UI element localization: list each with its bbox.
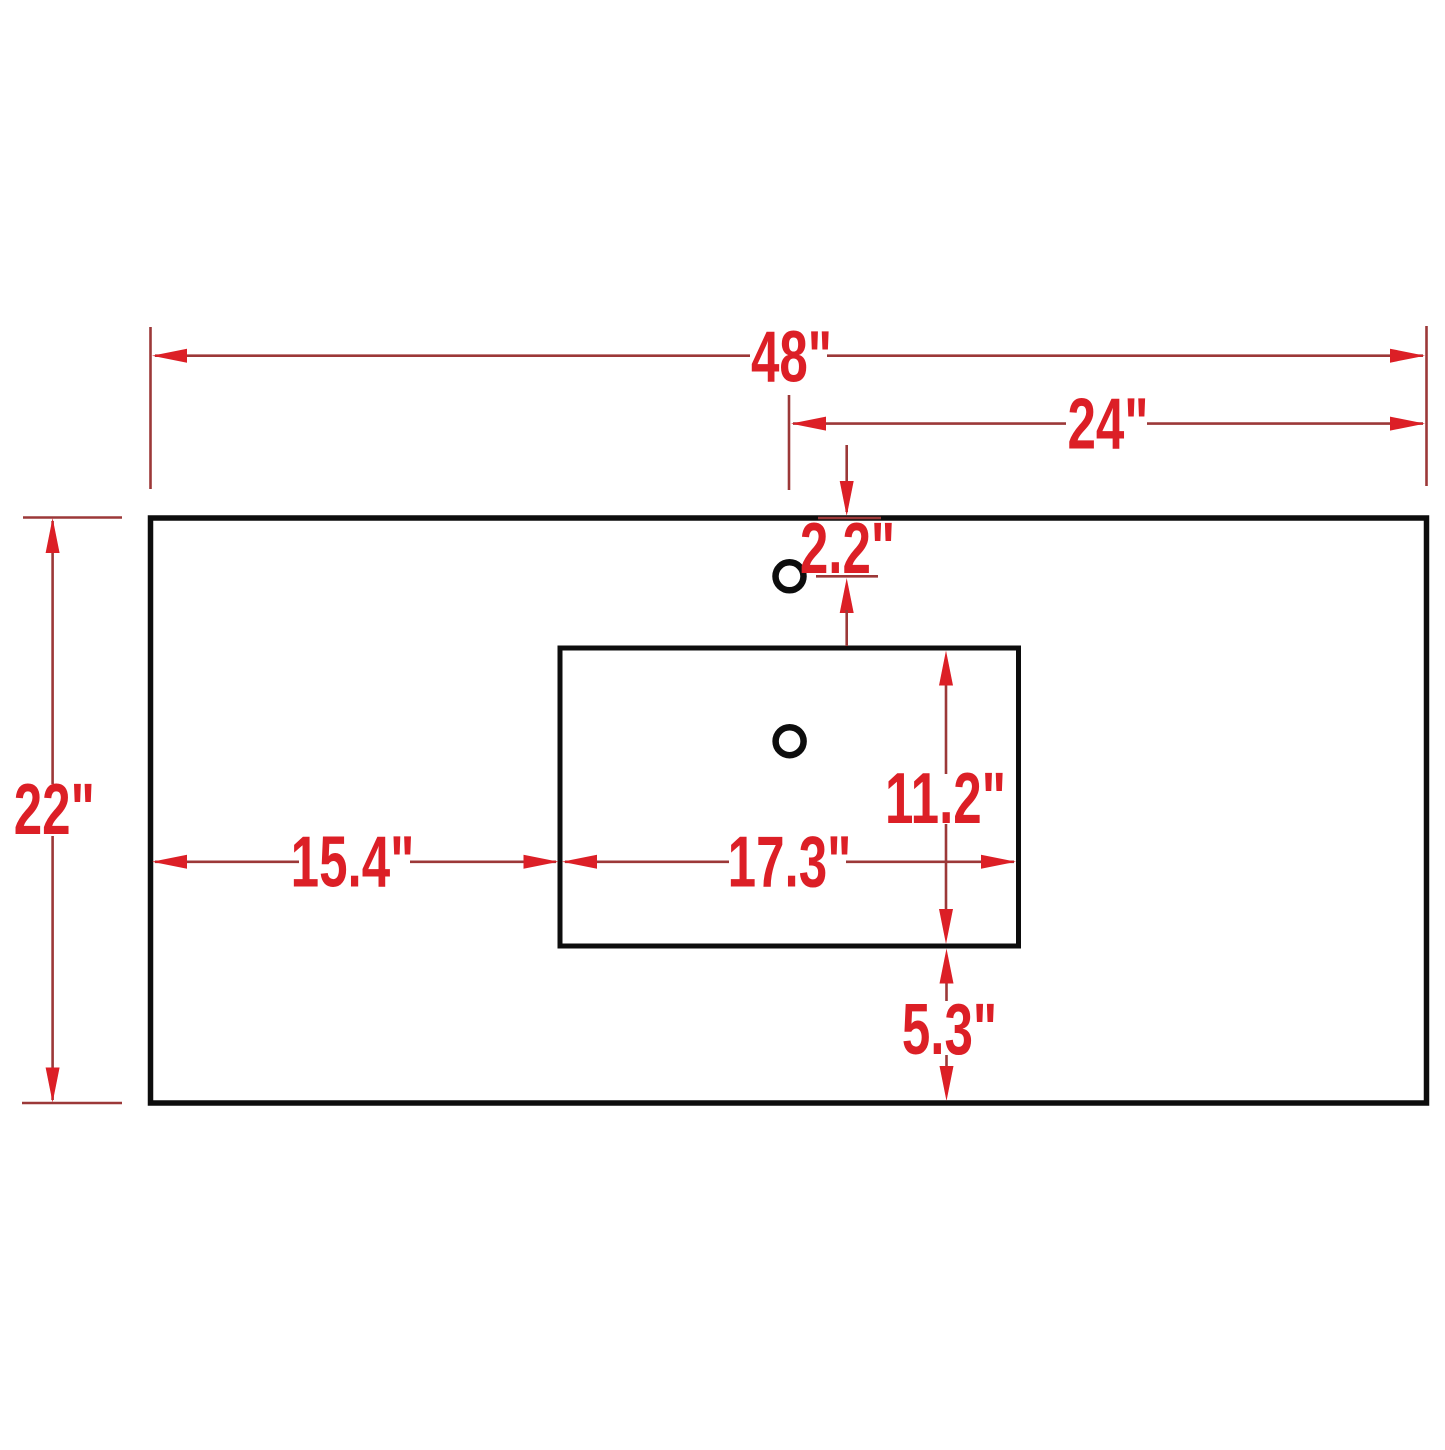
svg-text:15.4": 15.4" <box>291 822 415 903</box>
dim 5.3in arrow up <box>940 949 954 984</box>
dim 15.4in line <box>155 860 299 863</box>
svg-text:5.3": 5.3" <box>902 989 997 1070</box>
faucet hole upper <box>776 562 804 590</box>
dim 5.3in arrow down <box>940 1066 954 1101</box>
svg-text:17.3": 17.3" <box>728 822 852 903</box>
faucet hole lower <box>776 727 804 755</box>
dim 48in arrow left <box>152 349 187 363</box>
dim 48in arrow right <box>1390 349 1425 363</box>
svg-text:24": 24" <box>1067 384 1148 465</box>
dim 2.2in lower line <box>845 610 848 646</box>
dim 22in arrow down <box>46 1068 60 1103</box>
dim 11.2in arrow down <box>939 909 953 944</box>
dim 2.2in upper line <box>845 445 848 512</box>
svg-text:11.2": 11.2" <box>885 759 1006 840</box>
dim 24in arrow left <box>791 417 826 431</box>
dim 48in extension right <box>1425 326 1428 486</box>
dim 15.4in arrow right <box>524 855 559 869</box>
dim 2.2in top tick <box>818 517 881 520</box>
dim 11.2in arrow up <box>939 651 953 686</box>
dim 15.4in arrow left <box>152 855 187 869</box>
dim 24in arrow right <box>1390 417 1425 431</box>
dim 2.2in arrow down <box>840 481 854 516</box>
dim 22in bottom tick <box>22 1102 122 1105</box>
dim 11.2in line <box>945 683 948 774</box>
svg-text:48": 48" <box>751 317 832 398</box>
svg-text:22": 22" <box>14 769 95 850</box>
dim 22in top tick <box>23 516 122 519</box>
dim 17.3in line <box>565 860 729 863</box>
dim 5.3in line <box>945 981 948 1001</box>
dim 48in line <box>155 354 750 357</box>
dim 2.2in underline tick <box>816 575 878 578</box>
dim 22in line <box>51 521 54 784</box>
dim 48in extension left <box>149 327 152 489</box>
sink cutout outline <box>560 648 1019 946</box>
countertop outline <box>151 518 1427 1103</box>
dim 22in arrow up <box>46 518 60 553</box>
dim 2.2in arrow up <box>840 578 854 613</box>
dim 24in line <box>793 422 1066 425</box>
dim 17.3in arrow left <box>562 855 597 869</box>
dim 24in extension <box>788 395 791 490</box>
dim 17.3in arrow right <box>981 855 1016 869</box>
